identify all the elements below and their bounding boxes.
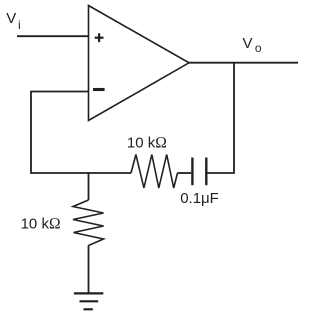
svg-text:V: V xyxy=(243,35,253,52)
wire feedback bottom row xyxy=(30,172,131,174)
capacitor C1 xyxy=(192,158,206,186)
resistor R1 10 kOhm (feedback, horizontal) xyxy=(131,155,178,189)
wire inverting input to left corner and down xyxy=(31,92,89,174)
svg-text:i: i xyxy=(18,18,21,32)
resistor R2 10 kOhm (to ground, vertical) xyxy=(73,200,104,246)
ground xyxy=(74,293,103,309)
svg-text:10 kΩ: 10 kΩ xyxy=(21,216,61,233)
wire C1 to output branch xyxy=(208,63,235,173)
wire Vi to noninverting input xyxy=(17,35,89,37)
svg-text:V: V xyxy=(6,10,16,27)
wire R1 to C1 xyxy=(178,172,192,174)
op-amp U1 xyxy=(89,6,190,121)
node Vi label xyxy=(6,10,20,32)
minus input mark xyxy=(93,88,105,91)
svg-text:10 kΩ: 10 kΩ xyxy=(127,135,167,152)
svg-text:o: o xyxy=(255,41,262,55)
wire R2 to ground xyxy=(88,246,90,294)
plus input mark xyxy=(95,33,104,42)
node Vo label xyxy=(243,35,262,55)
svg-text:0.1μF: 0.1μF xyxy=(180,190,219,207)
wire output xyxy=(189,62,298,64)
wire junction to R2 xyxy=(88,172,90,200)
